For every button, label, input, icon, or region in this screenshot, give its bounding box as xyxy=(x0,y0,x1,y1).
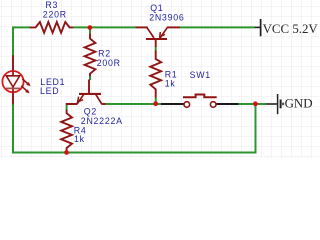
svg-text:200R: 200R xyxy=(97,58,121,68)
wire Q1 base to R1 xyxy=(155,47,157,51)
wire Q2 emitter to R4 xyxy=(66,104,68,110)
svg-text:1k: 1k xyxy=(165,78,176,88)
resistor R1 xyxy=(150,50,177,97)
wire bottom rail and GND riser xyxy=(13,104,256,153)
svg-text:Q2: Q2 xyxy=(84,107,97,117)
resistor R4 xyxy=(61,110,86,151)
node D junction dot (R4 to bottom rail) xyxy=(64,150,69,155)
switch SW1 xyxy=(183,70,217,107)
svg-text:VCC 5.2V: VCC 5.2V xyxy=(263,22,319,36)
transistor Q1 2N3906 xyxy=(136,3,185,47)
switch SW1 pin wires xyxy=(161,103,184,105)
svg-text:2N2222A: 2N2222A xyxy=(81,116,123,126)
wire SW1 to node C xyxy=(238,103,266,105)
svg-text:220R: 220R xyxy=(43,9,67,19)
svg-text:GND: GND xyxy=(285,96,313,110)
GND symbol xyxy=(266,94,313,114)
resistor R3 xyxy=(30,0,73,33)
wire node A stub to R2 xyxy=(89,29,91,34)
resistor R2 xyxy=(85,33,121,76)
svg-text:LED: LED xyxy=(40,86,59,96)
LED1 xyxy=(2,55,65,104)
svg-text:1k: 1k xyxy=(74,134,85,144)
wire Q1 emitter to VCC xyxy=(180,26,256,28)
svg-text:SW1: SW1 xyxy=(190,70,211,80)
node C junction dot xyxy=(253,101,258,106)
VCC supply symbol xyxy=(255,19,319,36)
wire R1 to node B xyxy=(155,97,157,103)
wire R2 to Q2 base xyxy=(89,76,91,80)
wire mid rail Q2 collector to node B xyxy=(104,103,161,105)
node A junction dot xyxy=(88,25,93,30)
svg-text:2N3906: 2N3906 xyxy=(149,13,184,23)
transistor Q2 2N2222A xyxy=(67,80,123,127)
node B junction dot xyxy=(153,101,158,106)
wire top rail from R3 to Q1 xyxy=(73,26,136,28)
wire top-left corner and left rail top xyxy=(13,27,30,55)
